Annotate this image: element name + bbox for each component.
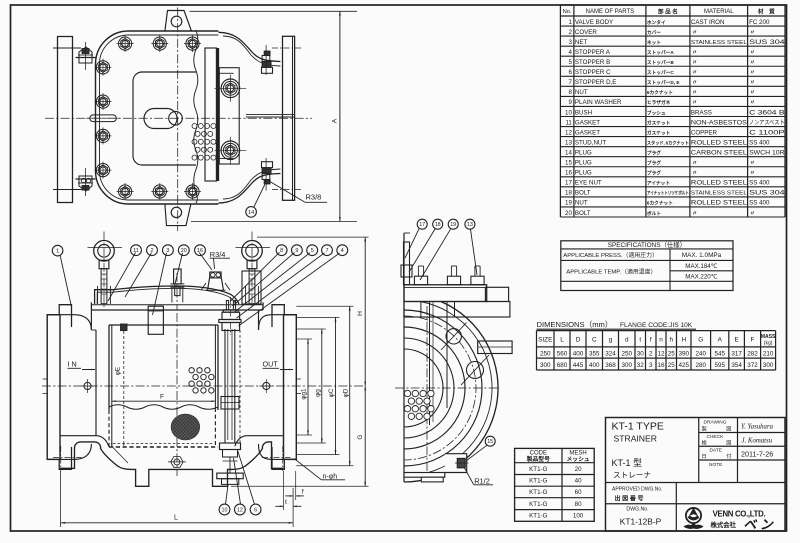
svg-text:8: 8 — [280, 248, 283, 254]
svg-text:J. Komatsu: J. Komatsu — [742, 437, 773, 444]
svg-text:372: 372 — [747, 362, 758, 369]
svg-text:9: 9 — [568, 99, 572, 106]
svg-text:d: d — [625, 337, 629, 344]
svg-text:12: 12 — [237, 507, 243, 513]
svg-text:EYE NUT: EYE NUT — [575, 180, 602, 187]
svg-text:プラグ: プラグ — [647, 170, 661, 177]
svg-text:13: 13 — [467, 222, 473, 228]
svg-text:BOLT: BOLT — [575, 190, 591, 197]
svg-text:ROLLED STEEL: ROLLED STEEL — [691, 200, 748, 207]
svg-text:SUS 304: SUS 304 — [749, 39, 785, 46]
svg-text:No.: No. — [563, 9, 572, 15]
svg-text:図: 図 — [726, 440, 731, 447]
svg-text:〃: 〃 — [750, 50, 756, 56]
svg-text:φC: φC — [328, 388, 335, 397]
svg-text:CODE: CODE — [530, 451, 547, 457]
svg-text:φg1: φg1 — [301, 388, 308, 400]
svg-text:BRASS: BRASS — [691, 109, 712, 116]
svg-text:〃: 〃 — [750, 100, 756, 106]
svg-text:ストッパーA: ストッパーA — [647, 49, 674, 56]
svg-text:〃: 〃 — [692, 100, 698, 106]
svg-text:KT-1 TYPE: KT-1 TYPE — [612, 421, 664, 433]
svg-text:324: 324 — [605, 350, 616, 357]
svg-text:NAME OF PARTS: NAME OF PARTS — [586, 9, 634, 15]
svg-text:60: 60 — [575, 489, 582, 496]
svg-text:h: h — [669, 337, 673, 344]
svg-text:250: 250 — [621, 350, 632, 357]
svg-text:プラグ: プラグ — [647, 160, 661, 167]
svg-text:〃: 〃 — [692, 90, 698, 96]
svg-text:6: 6 — [254, 507, 257, 513]
svg-text:PLUG: PLUG — [575, 170, 592, 177]
svg-text:10: 10 — [222, 507, 228, 513]
svg-text:STOPPER C: STOPPER C — [575, 69, 611, 76]
svg-text:ストッパーC: ストッパーC — [647, 69, 674, 76]
svg-text:〃: 〃 — [692, 80, 698, 86]
svg-text:カバー: カバー — [647, 29, 661, 36]
svg-text:560: 560 — [557, 350, 568, 357]
svg-text:OUT: OUT — [263, 360, 279, 369]
svg-text:材 質: 材 質 — [758, 7, 775, 15]
svg-text:6: 6 — [568, 69, 572, 76]
svg-text:〃: 〃 — [750, 161, 756, 167]
svg-text:25: 25 — [668, 350, 676, 357]
svg-text:MAX.184℃: MAX.184℃ — [685, 263, 717, 270]
svg-text:〃: 〃 — [750, 60, 756, 66]
svg-text:12: 12 — [657, 350, 665, 357]
svg-text:445: 445 — [573, 362, 584, 369]
svg-text:FC 200: FC 200 — [749, 19, 770, 26]
svg-text:30: 30 — [637, 350, 645, 357]
svg-text:6カクナット: 6カクナット — [647, 89, 673, 96]
svg-text:〃: 〃 — [750, 211, 756, 217]
svg-text:MAX. 1.0MPa: MAX. 1.0MPa — [682, 252, 722, 259]
svg-text:A: A — [718, 337, 723, 344]
svg-text:GASKET: GASKET — [575, 119, 600, 126]
svg-text:12: 12 — [565, 129, 572, 136]
svg-text:400: 400 — [589, 362, 600, 369]
svg-text:355: 355 — [589, 350, 600, 357]
svg-text:R1/2: R1/2 — [474, 476, 490, 485]
svg-text:CHECK: CHECK — [707, 434, 725, 440]
svg-text:MESH: MESH — [569, 451, 586, 457]
svg-text:STRAINER: STRAINER — [614, 434, 657, 444]
svg-text:C 3604 B: C 3604 B — [749, 109, 785, 116]
svg-text:16: 16 — [565, 170, 572, 177]
svg-text:C: C — [592, 337, 597, 344]
svg-text:H: H — [681, 337, 686, 344]
svg-text:APPLICABLE TEMP.（適用温度）: APPLICABLE TEMP.（適用温度） — [566, 268, 656, 276]
svg-text:CAST IRON: CAST IRON — [691, 19, 725, 26]
svg-text:300: 300 — [621, 362, 632, 369]
svg-text:L: L — [174, 515, 178, 522]
svg-text:DIMENSIONS（mm）: DIMENSIONS（mm） — [537, 320, 613, 329]
svg-text:PLAIN WASHER: PLAIN WASHER — [575, 99, 622, 106]
svg-text:t: t — [285, 499, 287, 506]
svg-text:Y. Yasuhara: Y. Yasuhara — [741, 424, 774, 431]
svg-text:株式会社: 株式会社 — [711, 520, 737, 529]
svg-text:BUSH: BUSH — [575, 109, 592, 116]
svg-text:40: 40 — [575, 478, 582, 485]
svg-text:1: 1 — [568, 19, 572, 26]
svg-text:11: 11 — [133, 248, 139, 254]
svg-text:SS 400: SS 400 — [749, 200, 770, 207]
svg-text:MATERIAL: MATERIAL — [704, 9, 734, 15]
svg-text:390: 390 — [678, 350, 689, 357]
svg-text:(kg): (kg) — [764, 341, 773, 347]
svg-text:プラグ: プラグ — [647, 149, 661, 156]
svg-text:18: 18 — [565, 190, 572, 197]
svg-text:STUD,NUT: STUD,NUT — [575, 139, 606, 146]
svg-text:SUS 304: SUS 304 — [749, 190, 785, 197]
svg-text:ホンタイ: ホンタイ — [647, 19, 666, 26]
svg-text:n: n — [659, 337, 663, 344]
svg-text:ガスケット: ガスケット — [647, 129, 671, 136]
svg-text:KT1-G: KT1-G — [529, 478, 547, 485]
svg-text:L: L — [560, 337, 564, 344]
svg-text:APPROVED DWG.No.: APPROVED DWG.No. — [612, 487, 663, 493]
svg-text:17: 17 — [419, 222, 425, 228]
svg-text:ネット: ネット — [647, 39, 661, 46]
svg-text:〃: 〃 — [692, 171, 698, 177]
svg-text:100: 100 — [573, 513, 584, 520]
svg-text:STAINLESS STEEL: STAINLESS STEEL — [691, 191, 748, 197]
svg-text:250: 250 — [540, 350, 551, 357]
svg-text:φE: φE — [115, 367, 122, 375]
svg-text:G: G — [698, 337, 703, 344]
svg-text:COPPER: COPPER — [691, 129, 718, 136]
svg-text:〃: 〃 — [750, 171, 756, 177]
svg-text:BOLT: BOLT — [575, 210, 591, 217]
svg-text:ストレーナ: ストレーナ — [613, 471, 651, 480]
svg-text:STOPPER A: STOPPER A — [575, 49, 611, 56]
svg-text:80: 80 — [575, 501, 582, 508]
svg-text:STAINLESS STEEL: STAINLESS STEEL — [691, 40, 748, 46]
svg-text:KT1-G: KT1-G — [529, 513, 547, 520]
svg-text:D: D — [576, 337, 581, 344]
svg-text:STOPPER D,E: STOPPER D,E — [575, 79, 617, 86]
svg-text:ヒラザガネ: ヒラザガネ — [647, 99, 671, 106]
svg-text:545: 545 — [714, 350, 725, 357]
svg-text:CARBON STEEL: CARBON STEEL — [691, 149, 748, 156]
svg-text:DATE: DATE — [710, 448, 722, 454]
svg-text:ストッパーB: ストッパーB — [647, 59, 674, 66]
svg-text:〃: 〃 — [750, 30, 756, 36]
svg-text:5: 5 — [568, 59, 572, 66]
svg-text:425: 425 — [678, 362, 689, 369]
svg-text:3: 3 — [649, 362, 653, 369]
svg-text:A: A — [332, 118, 339, 123]
svg-text:製品型号: 製品型号 — [527, 455, 550, 463]
svg-text:KT1-G: KT1-G — [529, 489, 547, 496]
svg-text:7: 7 — [568, 79, 572, 86]
svg-text:STOPPER B: STOPPER B — [575, 59, 610, 66]
svg-text:32: 32 — [637, 362, 645, 369]
svg-text:ボルト: ボルト — [647, 210, 661, 217]
svg-text:20: 20 — [575, 466, 582, 473]
svg-text:検: 検 — [702, 439, 708, 447]
svg-text:〃: 〃 — [750, 70, 756, 76]
svg-text:20: 20 — [181, 248, 187, 254]
svg-text:16: 16 — [657, 362, 665, 369]
svg-text:680: 680 — [557, 362, 568, 369]
svg-text:15: 15 — [565, 160, 572, 167]
svg-text:15: 15 — [487, 439, 493, 445]
svg-text:C 1100P: C 1100P — [749, 129, 785, 136]
svg-text:g: g — [609, 337, 613, 344]
svg-text:19: 19 — [450, 222, 456, 228]
svg-text:PLUG: PLUG — [575, 149, 592, 156]
svg-text:F: F — [751, 337, 755, 344]
svg-text:354: 354 — [731, 362, 742, 369]
svg-text:〃: 〃 — [692, 30, 698, 36]
svg-text:ノンアスベスト: ノンアスベスト — [749, 119, 785, 126]
svg-text:1: 1 — [56, 249, 59, 255]
svg-text:8: 8 — [568, 89, 572, 96]
svg-text:部 品 名: 部 品 名 — [658, 7, 678, 15]
svg-text:スタッド, 6カクナット: スタッド, 6カクナット — [647, 139, 689, 146]
svg-text:20: 20 — [565, 210, 572, 217]
svg-text:H: H — [357, 311, 364, 316]
svg-text:〃: 〃 — [692, 70, 698, 76]
svg-text:10: 10 — [565, 109, 572, 116]
svg-text:SWCH 10R: SWCH 10R — [749, 149, 785, 156]
svg-text:GASKET: GASKET — [575, 129, 600, 136]
svg-text:〃: 〃 — [692, 161, 698, 167]
svg-text:6カクナット: 6カクナット — [647, 200, 673, 207]
svg-text:〃: 〃 — [692, 50, 698, 56]
svg-text:VALVE BODY: VALVE BODY — [575, 19, 613, 26]
svg-text:COVER: COVER — [575, 29, 598, 36]
svg-text:〃: 〃 — [750, 90, 756, 96]
svg-text:R3/4: R3/4 — [210, 250, 226, 259]
svg-text:19: 19 — [565, 200, 572, 207]
svg-text:付: 付 — [726, 452, 731, 460]
svg-text:KT-1 型: KT-1 型 — [612, 458, 643, 468]
svg-text:DRAWING: DRAWING — [704, 420, 727, 426]
svg-text:ベ ン: ベ ン — [743, 517, 774, 532]
svg-text:KT1-G: KT1-G — [529, 501, 547, 508]
svg-text:280: 280 — [696, 362, 707, 369]
svg-text:SS 400: SS 400 — [749, 180, 770, 187]
svg-text:595: 595 — [714, 362, 725, 369]
svg-text:PLUG: PLUG — [575, 160, 592, 167]
svg-text:MAX.220℃: MAX.220℃ — [685, 273, 717, 280]
svg-text:9: 9 — [295, 248, 298, 254]
svg-text:SPECIFICATIONS（仕様）: SPECIFICATIONS（仕様） — [608, 240, 686, 249]
svg-text:FLANGE CODE:JIS 10K: FLANGE CODE:JIS 10K — [620, 322, 693, 329]
svg-text:2011-7-26: 2011-7-26 — [741, 450, 773, 459]
svg-text:NUT: NUT — [575, 200, 588, 207]
svg-text:ストッパーD, E: ストッパーD, E — [647, 79, 680, 86]
svg-text:SS 400: SS 400 — [749, 139, 770, 146]
svg-text:ブッシュ: ブッシュ — [647, 109, 666, 116]
svg-text:11: 11 — [565, 119, 572, 126]
svg-text:13: 13 — [565, 139, 572, 146]
svg-text:368: 368 — [605, 362, 616, 369]
svg-text:メッシュ: メッシュ — [566, 456, 589, 463]
svg-text:NET: NET — [575, 39, 588, 46]
svg-text:4: 4 — [341, 248, 344, 254]
svg-text:18: 18 — [435, 222, 441, 228]
svg-text:NOTE: NOTE — [709, 462, 722, 468]
svg-text:E: E — [734, 337, 738, 344]
svg-text:400: 400 — [573, 350, 584, 357]
svg-text:R3/8: R3/8 — [306, 192, 322, 201]
svg-text:φD: φD — [342, 388, 349, 397]
svg-text:f: f — [302, 489, 304, 496]
svg-text:NUT: NUT — [575, 89, 588, 96]
svg-text:17: 17 — [565, 180, 572, 187]
svg-text:ガスケット: ガスケット — [647, 119, 671, 126]
svg-text:7: 7 — [326, 248, 329, 254]
svg-text:MASS: MASS — [761, 334, 776, 340]
svg-text:300: 300 — [540, 362, 551, 369]
svg-text:14: 14 — [248, 210, 254, 216]
svg-text:300: 300 — [763, 362, 774, 369]
svg-text:2: 2 — [649, 350, 653, 357]
svg-text:4: 4 — [568, 49, 572, 56]
svg-text:ROLLED STEEL: ROLLED STEEL — [691, 180, 748, 187]
svg-text:282: 282 — [747, 350, 758, 357]
svg-text:APPLICABLE PRESS.（適用圧力）: APPLICABLE PRESS.（適用圧力） — [563, 251, 658, 259]
svg-text:I N: I N — [68, 360, 77, 369]
svg-text:アイナットトリツケボルト: アイナットトリツケボルト — [647, 190, 689, 197]
svg-text:KT1-12B-P: KT1-12B-P — [620, 517, 662, 527]
svg-text:240: 240 — [696, 350, 707, 357]
svg-text:KT1-G: KT1-G — [529, 466, 547, 473]
svg-text:14: 14 — [565, 149, 572, 156]
svg-text:日: 日 — [702, 453, 707, 460]
svg-text:〃: 〃 — [750, 80, 756, 86]
svg-text:5: 5 — [311, 248, 314, 254]
svg-text:図: 図 — [726, 426, 731, 433]
svg-text:NON-ASBESTOS: NON-ASBESTOS — [691, 119, 747, 126]
svg-text:f: f — [650, 337, 652, 344]
svg-text:F: F — [160, 394, 164, 401]
svg-text:ROLLED STEEL: ROLLED STEEL — [691, 139, 748, 146]
svg-text:G: G — [357, 434, 364, 439]
svg-text:〃: 〃 — [692, 211, 698, 217]
svg-text:φg: φg — [314, 389, 321, 397]
svg-text:t: t — [639, 337, 641, 344]
svg-text:出 図 番 号: 出 図 番 号 — [615, 495, 644, 503]
svg-text:3: 3 — [568, 39, 572, 46]
svg-text:2: 2 — [568, 29, 572, 36]
svg-text:〃: 〃 — [692, 60, 698, 66]
svg-text:DWG.No.: DWG.No. — [626, 507, 648, 513]
svg-text:25: 25 — [668, 362, 676, 369]
svg-text:317: 317 — [731, 350, 742, 357]
svg-text:210: 210 — [763, 350, 774, 357]
svg-text:SIZE: SIZE — [538, 337, 552, 344]
svg-text:製: 製 — [702, 425, 707, 433]
